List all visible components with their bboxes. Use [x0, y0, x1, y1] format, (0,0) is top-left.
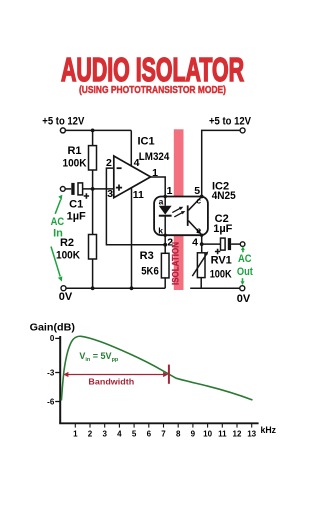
- svg-text:5: 5: [132, 430, 137, 439]
- wire opto pin 5 to top rail: [202, 130, 240, 196]
- svg-text:-6: -6: [47, 397, 55, 406]
- capacitor C2: [221, 238, 232, 250]
- AC output terminal: [240, 242, 245, 247]
- AC In arrow to 0V: [51, 247, 60, 277]
- wire op-amp V+ pin 4: [130, 130, 132, 165]
- junction R1/R2/input: [91, 187, 95, 191]
- isolation barrier bar: [174, 129, 184, 290]
- svg-text:0V: 0V: [237, 293, 251, 305]
- plus mark C1: [84, 193, 89, 198]
- svg-text:Gain(dB): Gain(dB): [30, 323, 75, 334]
- svg-text:0V: 0V: [59, 291, 73, 303]
- svg-text:4: 4: [192, 237, 198, 249]
- capacitor C1: [71, 183, 82, 195]
- svg-text:C1: C1: [69, 199, 83, 211]
- resistor R3: [161, 245, 169, 289]
- svg-text:AUDIO ISOLATOR: AUDIO ISOLATOR: [61, 51, 244, 88]
- LED triangle: [159, 206, 172, 215]
- wire op-amp V- pin 11 to 0V: [131, 188, 133, 288]
- plus mark C2: [215, 249, 220, 254]
- svg-text:4N25: 4N25: [212, 190, 236, 202]
- svg-text:6: 6: [147, 430, 152, 439]
- svg-text:RV1: RV1: [211, 255, 232, 267]
- wire opto pin 4 to output node: [201, 235, 203, 253]
- svg-text:0: 0: [50, 334, 55, 343]
- svg-text:c: c: [196, 195, 201, 205]
- bandwidth arrow: [63, 365, 170, 384]
- wire feedback pin 2 to R3 node: [106, 168, 165, 245]
- svg-text:+5 to 12V: +5 to 12V: [42, 115, 85, 127]
- op-amp U1 LM324: [114, 156, 151, 198]
- wire output node to C2: [202, 243, 221, 245]
- AC input terminal: [60, 187, 65, 192]
- svg-text:+5 to 12V: +5 to 12V: [209, 115, 252, 127]
- svg-text:100K: 100K: [210, 268, 232, 280]
- svg-text:2: 2: [106, 157, 112, 169]
- AC In arrow to input: [55, 200, 61, 214]
- potentiometer RV1: [192, 251, 208, 277]
- svg-text:Out: Out: [237, 266, 253, 278]
- wire op-amp output to opto pin 1: [151, 177, 166, 197]
- graph x-axis: [59, 422, 258, 424]
- 0V terminal (left): [61, 286, 66, 291]
- y tick 0: [55, 337, 60, 339]
- light arrow 1: [172, 208, 180, 213]
- resistor R2: [89, 189, 97, 288]
- junction R1 top: [91, 129, 95, 133]
- svg-text:e: e: [196, 225, 201, 235]
- graph y-axis: [59, 336, 61, 423]
- wire C1 to op-amp +input (pin 3): [83, 188, 114, 190]
- svg-text:LM324: LM324: [139, 151, 170, 163]
- junction pin 11 bottom: [130, 286, 134, 290]
- junction R2 bottom: [91, 286, 95, 290]
- svg-text:3: 3: [102, 430, 107, 439]
- optocoupler U2 4N25: [154, 197, 208, 236]
- power terminal +5 to 12V (left): [60, 128, 65, 133]
- svg-text:k: k: [158, 226, 163, 236]
- svg-text:7: 7: [161, 430, 166, 439]
- svg-text:11: 11: [133, 189, 144, 201]
- light arrow 2: [174, 212, 182, 217]
- LED anode wire: [164, 197, 166, 206]
- svg-text:1: 1: [73, 430, 78, 439]
- wire bottom rail left: [66, 287, 165, 289]
- svg-text:a: a: [159, 197, 164, 207]
- x ticks and labels: [75, 424, 251, 428]
- wire RV1 to 0V rail: [190, 278, 240, 289]
- svg-text:AC: AC: [51, 216, 65, 228]
- svg-text:1: 1: [167, 185, 173, 197]
- wire C2 to AC out terminal: [231, 243, 240, 245]
- svg-text:3: 3: [107, 188, 113, 200]
- AC Out arrow to 0V: [242, 278, 244, 281]
- AC Out arrow to output: [242, 249, 244, 252]
- svg-text:4: 4: [117, 430, 122, 439]
- wire opto pin 2 to R3 node: [164, 235, 166, 245]
- emitter line: [188, 221, 201, 235]
- svg-text:9: 9: [191, 430, 196, 439]
- svg-text:2: 2: [88, 430, 93, 439]
- svg-text:(USING PHOTOTRANSISTOR MODE): (USING PHOTOTRANSISTOR MODE): [79, 84, 226, 96]
- svg-text:AC: AC: [238, 253, 252, 265]
- svg-text:100K: 100K: [56, 249, 80, 261]
- collector line: [188, 197, 201, 211]
- svg-text:11: 11: [218, 430, 227, 439]
- phototransistor base bar: [187, 205, 189, 226]
- svg-text:Bandwidth: Bandwidth: [88, 377, 134, 387]
- junction feedback/R3/opto cathode: [163, 243, 167, 247]
- svg-text:kHz: kHz: [261, 425, 277, 436]
- y tick -6: [55, 401, 60, 403]
- resistor R1: [89, 130, 97, 189]
- wire top rail left: [66, 129, 132, 131]
- LED cathode bar: [159, 215, 172, 217]
- svg-text:1µF: 1µF: [213, 223, 232, 235]
- svg-text:13: 13: [247, 430, 256, 439]
- svg-text:In: In: [53, 227, 63, 239]
- svg-text:-3: -3: [47, 368, 55, 377]
- svg-text:12: 12: [233, 430, 242, 439]
- svg-text:8: 8: [176, 430, 181, 439]
- power terminal +5 to 12V (right): [240, 128, 245, 133]
- wire input to C1: [65, 188, 71, 190]
- svg-text:100K: 100K: [63, 157, 87, 169]
- svg-text:1µF: 1µF: [67, 211, 86, 223]
- 0V terminal (right): [240, 286, 245, 291]
- svg-text:Vin = 5Vpp: Vin = 5Vpp: [79, 351, 119, 363]
- svg-text:10: 10: [203, 430, 212, 439]
- response curve: [61, 336, 252, 400]
- svg-text:R3: R3: [140, 250, 154, 262]
- svg-text:4: 4: [134, 157, 140, 169]
- svg-text:R1: R1: [67, 145, 81, 157]
- svg-text:IC1: IC1: [138, 135, 155, 147]
- pin dots on opto: [164, 195, 167, 198]
- y tick -3: [55, 372, 60, 374]
- junction emitter/RV1/C2: [200, 242, 204, 246]
- LED cathode wire: [164, 216, 166, 235]
- svg-text:5K6: 5K6: [141, 266, 159, 278]
- svg-text:2: 2: [167, 237, 173, 249]
